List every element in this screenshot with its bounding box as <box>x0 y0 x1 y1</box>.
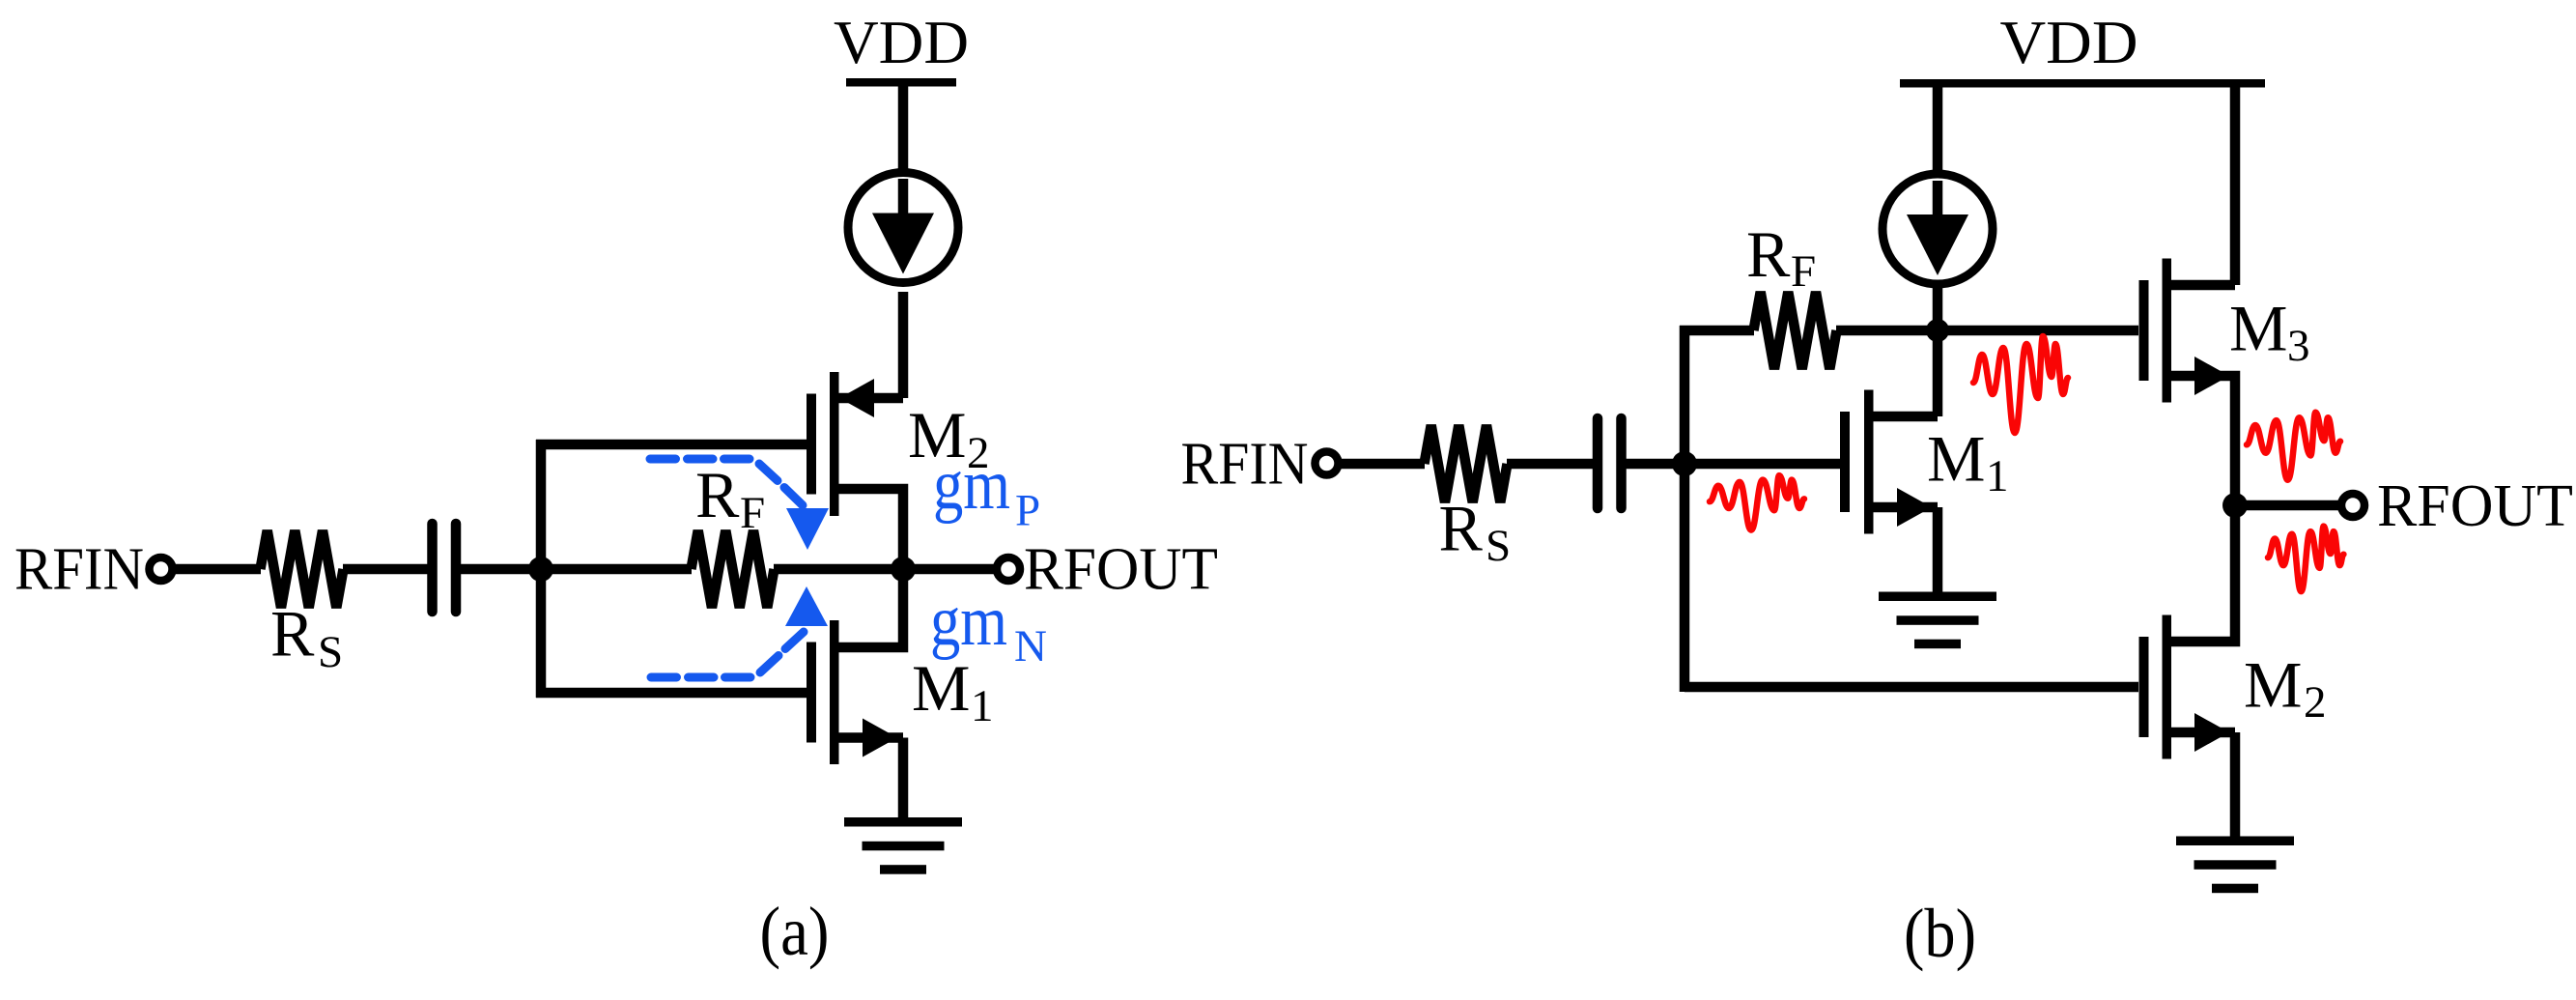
svg-text:R: R <box>1746 217 1791 291</box>
RF node dot (b) <box>1926 319 1949 342</box>
transistor M3 PMOS (b): drain horizontal and wire down to output node <box>2171 376 2235 505</box>
svg-text:RFOUT: RFOUT <box>2377 473 2573 539</box>
svg-text:1: 1 <box>1986 451 2009 501</box>
wire VDD bar right drop to M3 source (b) <box>2230 83 2241 285</box>
svg-text:VDD: VDD <box>2000 8 2138 76</box>
current source I (a): circle <box>848 173 958 283</box>
VDD bar (a) <box>846 78 956 87</box>
svg-text:(a): (a) <box>760 893 830 970</box>
transistor M2 NMOS (b): drain horizontal and wire up to output node <box>2171 505 2235 642</box>
transistor M1 NMOS (b): drain horizontal <box>1873 412 1938 422</box>
wire RF to output node (a) <box>774 564 903 575</box>
svg-text:R: R <box>695 458 740 531</box>
wire gate loop vertical at node A (a) <box>536 440 547 698</box>
transistor M2 PMOS (a): vertical source wire to current source <box>898 292 909 398</box>
wire RFIN terminal to RS (b) <box>1341 459 1425 470</box>
transistor M3 PMOS (b): source horizontal to VDD rail <box>2171 280 2235 291</box>
svg-text:RFIN: RFIN <box>1181 432 1309 498</box>
wire cap to input node and M1 gate (b) <box>1621 459 1840 470</box>
transistor M3 PMOS (b): gate bar <box>2139 280 2149 381</box>
ground symbol (b) M1 source <box>1879 592 1996 602</box>
RFOUT terminal circle (a) <box>997 557 1020 581</box>
current source (a) arrow <box>898 179 909 227</box>
svg-text:3: 3 <box>2287 321 2310 371</box>
transistor M1 NMOS (a): source arrow (points right) <box>863 719 897 757</box>
noise squiggle at M3 drain (b) <box>2247 413 2340 480</box>
svg-text:N: N <box>1014 621 1047 671</box>
gmP feedforward dashed path (a) <box>650 459 803 505</box>
current source I (b): circle <box>1882 174 1993 284</box>
transistor M2 PMOS (a): gate bar <box>807 394 816 495</box>
RFIN terminal circle (b) <box>1316 452 1339 475</box>
resistor RS (b) <box>1425 425 1508 502</box>
svg-text:P: P <box>1015 486 1040 536</box>
transistor M2 PMOS (a): channel bar <box>830 372 839 516</box>
transistor M1 NMOS (a): gate bar <box>807 643 816 743</box>
wire cap to input node A (a) <box>457 564 541 575</box>
transistor M3 PMOS (b): channel bar <box>2163 259 2172 403</box>
svg-text:S: S <box>1486 521 1511 571</box>
svg-text:R: R <box>270 597 315 671</box>
svg-text:gm: gm <box>930 582 1007 661</box>
capacitor C coupling (a) <box>433 524 457 612</box>
noise squiggle at M1 drain node (b) <box>1973 336 2068 433</box>
gmP arrow head (down) <box>786 508 829 550</box>
wire RS to coupling cap (b) <box>1507 459 1598 470</box>
transistor M1 NMOS (a): source wire down to ground <box>898 738 909 819</box>
transistor M1 NMOS (b): channel bar <box>1864 390 1874 534</box>
transistor M1 NMOS (a): source horizontal <box>838 732 903 743</box>
wire bottom feedback row to M2 gate (b) <box>1684 682 2138 693</box>
wire node A to RF (a) <box>541 564 692 575</box>
svg-text:R: R <box>1439 492 1484 565</box>
svg-text:F: F <box>1791 246 1816 297</box>
wire current source to RF node (b) <box>1933 284 1943 330</box>
wire RS to coupling cap (a) <box>343 564 432 575</box>
transistor M2 PMOS (a): drain horizontal and wire down to output node <box>838 489 903 569</box>
wire bottom gate loop to M1 gate (a) <box>536 688 807 699</box>
capacitor C coupling (b) <box>1598 418 1622 508</box>
svg-text:F: F <box>740 488 765 538</box>
wire top gate loop to M2 gate (a) <box>536 440 807 450</box>
transistor M1 NMOS (b): source horizontal <box>1873 502 1938 513</box>
transistor M1 NMOS (b): gate bar <box>1840 412 1850 512</box>
transistor M3 PMOS (b): drain arrow <box>2194 357 2229 395</box>
resistor RF (b) <box>1754 292 1837 369</box>
transistor M1 NMOS (a): drain horizontal and wire up to output node <box>838 569 903 647</box>
svg-text:M: M <box>2229 292 2287 365</box>
transistor M2 NMOS (b): source arrow <box>2194 713 2229 752</box>
current source I (a): wire from VDD bar <box>898 82 909 174</box>
transistor M2 NMOS (b): source wire down to ground <box>2230 732 2241 837</box>
transistor M2 NMOS (b): source horizontal <box>2171 728 2235 738</box>
VDD bar (b) <box>1900 79 2265 88</box>
svg-text:2: 2 <box>2304 677 2327 728</box>
transistor M1 NMOS (b): source wire down to ground <box>1933 507 1943 592</box>
noise squiggle at output (b) <box>2268 527 2343 592</box>
input node dot (b) <box>1672 451 1697 476</box>
noise squiggle at input node (b) <box>1710 475 1804 530</box>
output node dot (a) <box>891 557 916 582</box>
wire RFIN terminal to RS (a) <box>175 564 261 575</box>
node A dot (a input node) <box>528 557 553 582</box>
transistor M1 NMOS (b): source arrow <box>1897 488 1932 527</box>
svg-text:M: M <box>1927 422 1985 496</box>
RFOUT terminal circle (b) <box>2341 494 2364 517</box>
gmN feedforward dashed path (a) <box>651 632 804 677</box>
wire output node to RFOUT terminal (a) <box>903 564 994 575</box>
svg-text:M: M <box>912 651 970 725</box>
wire feedback vertical at input node (b) <box>1680 326 1690 692</box>
wire output node to RFOUT terminal (b) <box>2235 500 2338 511</box>
resistor RS (a) <box>261 530 344 608</box>
ground symbol (b) M2 source <box>2176 837 2294 846</box>
current source I (b): wire from VDD bar <box>1933 83 1943 175</box>
wire RF to node under current source and to M3 gate (b) <box>1836 326 2138 336</box>
RFIN terminal circle (a) <box>150 557 173 581</box>
svg-text:RFIN: RFIN <box>14 537 144 603</box>
svg-text:VDD: VDD <box>834 8 969 76</box>
svg-text:RFOUT: RFOUT <box>1024 537 1218 603</box>
gmN arrow head (up) <box>785 586 828 626</box>
svg-text:S: S <box>318 627 343 677</box>
transistor M2 PMOS (a): source arrow (points left) <box>839 379 874 417</box>
transistor M1 NMOS (a): channel bar <box>830 620 839 764</box>
transistor M2 NMOS (b): channel bar <box>2163 615 2172 759</box>
svg-text:M: M <box>2244 648 2302 722</box>
svg-text:1: 1 <box>971 681 994 731</box>
ground symbol (a) M1 source <box>844 817 962 827</box>
transistor M2 NMOS (b): gate bar <box>2139 637 2149 737</box>
output node dot (b) <box>2222 493 2248 518</box>
transistor M2 PMOS (a): source horizontal <box>838 393 903 404</box>
resistor RF (a) <box>692 530 775 608</box>
current source (b) arrow <box>1933 181 1943 229</box>
wire RF row: corner to resistor RF (b) <box>1680 326 1754 336</box>
svg-text:gm: gm <box>933 445 1010 525</box>
svg-text:(b): (b) <box>1904 895 1976 972</box>
wire RF node down to M1 drain (b) <box>1933 330 1943 416</box>
